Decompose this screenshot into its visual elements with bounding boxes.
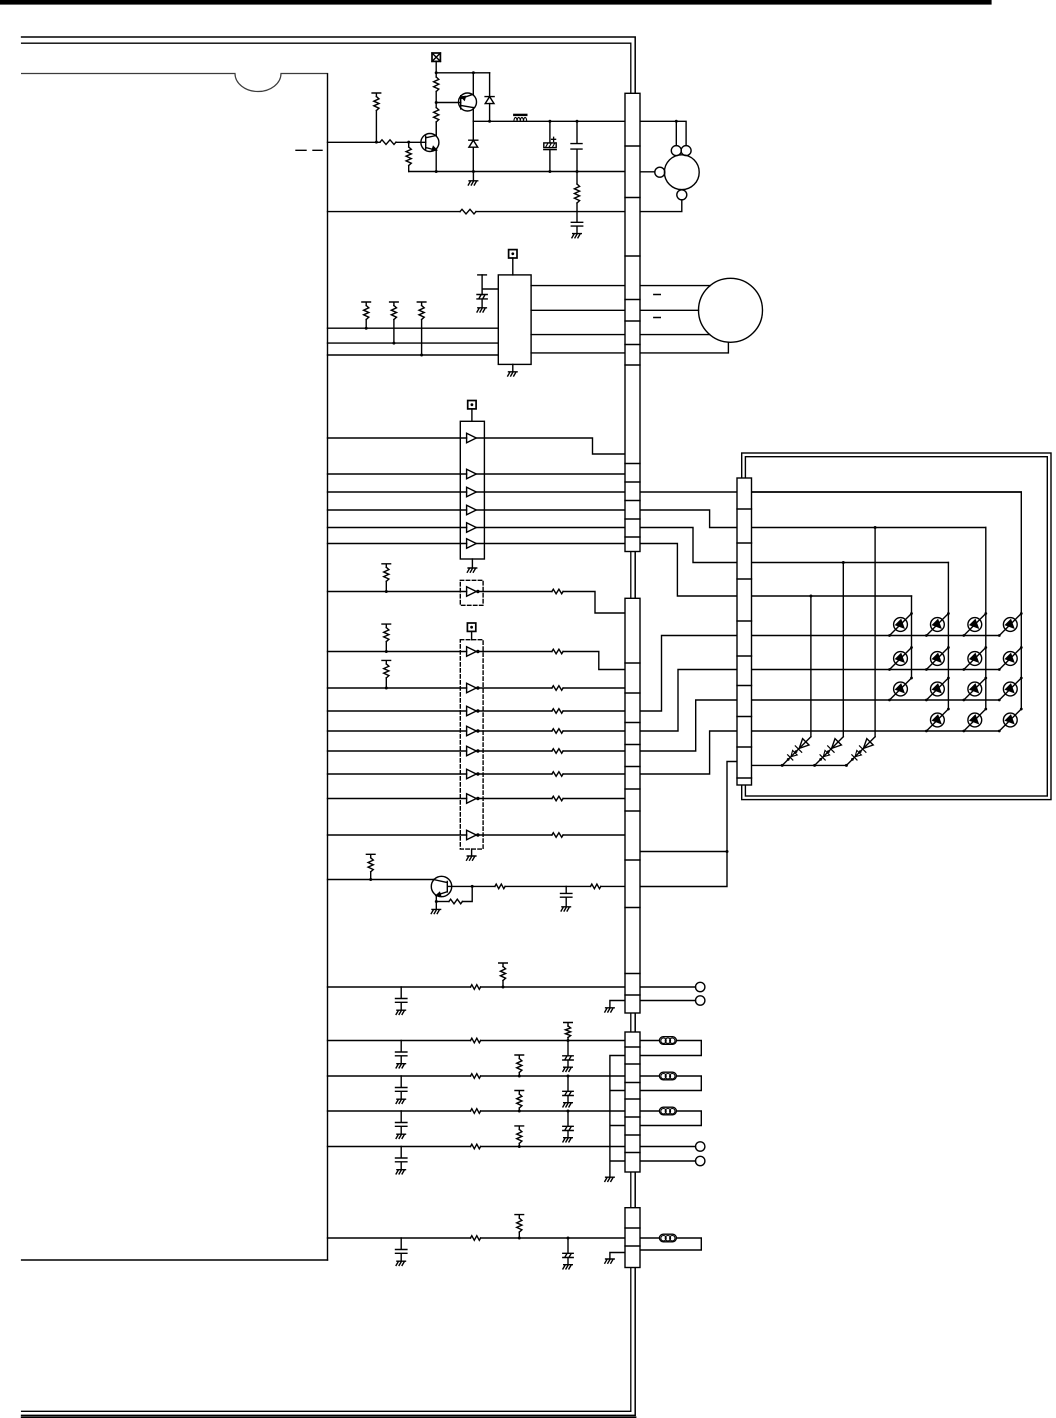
resistor R32 series	[471, 1144, 481, 1149]
wire Q1 emitter	[435, 151, 437, 172]
buffer U4-5	[467, 746, 477, 756]
wire motor mid	[640, 171, 655, 173]
wire LED common bottom	[752, 764, 847, 766]
wire U2 out 5 (LED col 2 feed)	[476, 528, 948, 563]
wire H rail 2	[328, 1075, 471, 1077]
wire Q2 emitter to rail	[472, 73, 474, 94]
wire U4 input 1	[328, 651, 467, 653]
inductor L2	[659, 1037, 676, 1045]
resistor R27 series	[471, 985, 481, 990]
resistor R23 pullup	[366, 854, 375, 858]
wire U4 input 3	[328, 710, 467, 712]
wire U4 out 2	[476, 687, 552, 689]
pin circle H2	[696, 1156, 705, 1165]
motor M2	[699, 278, 763, 342]
wire U2 out 6 (LED col 1 feed)	[476, 544, 911, 597]
node R24 junction	[471, 885, 474, 888]
LED panel inner frame	[745, 457, 1047, 796]
wire J1 stem	[435, 61, 437, 72]
wire U1 out 1	[531, 285, 710, 287]
wire U2 out 4 (LED col 3 feed)	[476, 510, 986, 528]
resistor R21 series	[552, 796, 563, 801]
node Q3 emitter junction	[435, 900, 438, 903]
wire I rail	[328, 1237, 471, 1239]
capacitor C15 electrolytic to ground	[563, 1238, 573, 1265]
resistor R35 pullup	[515, 1091, 524, 1095]
wire U4 out 1	[476, 651, 552, 653]
buffer U2-5	[467, 523, 477, 533]
wire motor return rail	[328, 211, 461, 213]
wire top supply rail	[436, 72, 489, 74]
wire LED row 1	[752, 635, 998, 637]
LED D16 row4 col2	[926, 709, 948, 731]
wire Q3 base rail	[328, 879, 434, 881]
net continuation dashes	[296, 149, 322, 151]
resistor R24 feedback	[436, 901, 449, 903]
wire U4 out 8	[476, 834, 552, 836]
buffer U4-1	[467, 647, 477, 657]
wire J3 stem	[471, 409, 473, 421]
wire LED row3 link	[640, 700, 752, 751]
resistor R3 series base	[380, 140, 396, 145]
resistor R1	[434, 77, 439, 92]
wire G rail	[328, 986, 471, 988]
diode chain 3	[846, 737, 875, 766]
connector CN2	[625, 598, 640, 1013]
wire coil loop 4	[640, 1238, 701, 1250]
node rail junctions	[435, 170, 438, 173]
wire U1 out 4	[531, 342, 728, 353]
wire Q3 emitter down	[435, 895, 437, 901]
wire U4 out 7	[476, 798, 552, 800]
node aux junction	[726, 850, 729, 853]
capacitor C14 to ground	[396, 1238, 407, 1261]
IC U2 buffer array	[460, 421, 484, 559]
buffer U4-8	[467, 830, 477, 840]
wire Q3 collector rail	[452, 885, 495, 887]
wire U4 input 7	[328, 798, 467, 800]
resistor R17 series	[552, 709, 563, 714]
LED D10 row2 col4	[999, 648, 1021, 670]
wire U2 input 5	[328, 527, 467, 529]
buffer U4-3	[467, 706, 477, 716]
wire H pin1	[640, 1146, 696, 1148]
node H3 cap junction	[567, 1110, 570, 1113]
node rail C1 junction	[548, 120, 551, 123]
capacitor C3	[571, 222, 582, 233]
wire coil loop 3	[640, 1111, 701, 1126]
LED D9 row2 col3	[964, 648, 986, 670]
board frame outer double-line	[22, 37, 636, 1415]
wire Q1 base rail	[328, 141, 381, 143]
resistor R19 series	[552, 749, 563, 754]
pin circle G2	[696, 996, 705, 1005]
pin circle H1	[696, 1142, 705, 1151]
resistor R11 pullup	[382, 564, 391, 568]
ground C5	[561, 907, 570, 911]
wire Q3 out to LED link	[640, 762, 737, 887]
node rail C2 junction	[576, 120, 579, 123]
transistor Q1 (NPN)	[421, 134, 439, 152]
wire H pin2	[640, 1160, 696, 1162]
wire aux link	[640, 851, 727, 853]
ground C3	[572, 234, 581, 238]
inductor L5	[659, 1234, 676, 1242]
wire G pin1	[640, 986, 696, 988]
wire Q1 collector	[435, 122, 437, 135]
diode chain 1	[782, 737, 811, 766]
wire U4 input 5	[328, 750, 467, 752]
wire Q2 collector down	[472, 108, 474, 122]
wire J2 stem	[512, 258, 514, 275]
main IC block bottom edge	[22, 1259, 328, 1261]
resistor R8 pullup	[362, 302, 371, 306]
resistor R14 pullup	[382, 660, 391, 664]
LED D13 row3 col3	[964, 678, 986, 700]
wire U4 input 6	[328, 773, 467, 775]
node motor feed branch	[675, 120, 678, 123]
wire Q2 base	[436, 102, 461, 104]
capacitor C4 with stub	[478, 274, 487, 276]
wire G pin2	[640, 1000, 696, 1002]
resistor R15 series	[552, 649, 563, 654]
capacitor C13 electrolytic to ground	[563, 1111, 573, 1138]
capacitor C2	[571, 121, 582, 171]
ground G connector	[610, 1001, 625, 1008]
diode D1	[489, 73, 491, 122]
IC U1 motor driver	[498, 275, 531, 365]
wire U1 out 3	[531, 334, 710, 336]
resistor R20 series	[552, 772, 563, 777]
LED D7 row2 col1	[890, 648, 912, 670]
wire LED row 4	[752, 730, 998, 732]
resistor R37 series	[471, 1236, 481, 1241]
LED D8 row2 col2	[926, 648, 948, 670]
resistor R13 pullup	[382, 624, 391, 628]
wire U2 input 3	[328, 491, 467, 493]
wire output rail	[473, 120, 625, 122]
LED D17 row4 col3	[964, 709, 986, 731]
resistor R26 series	[591, 884, 601, 889]
buffer U3 dashed box	[460, 580, 483, 605]
ground U1	[512, 364, 514, 371]
LED D11 row3 col1	[890, 678, 912, 700]
connector symbol J3 (boxed dot)	[468, 401, 476, 409]
ground I connector	[610, 1253, 625, 1259]
buffer U2-1	[467, 433, 477, 443]
connector CN5 LED panel	[737, 478, 752, 785]
resistor R36 pullup	[515, 1126, 524, 1130]
capacitor C8 to ground	[396, 1076, 407, 1099]
wire coil loop 2	[640, 1076, 701, 1091]
buffer U2-3	[467, 487, 477, 497]
ground U2	[471, 559, 473, 568]
wire LED row4 link	[640, 731, 752, 774]
ground bus symbol	[605, 1177, 614, 1181]
wire LED row 3	[752, 699, 998, 701]
wire U3 input	[328, 591, 467, 593]
capacitor C5	[561, 886, 572, 906]
wire U2 out 2	[476, 473, 625, 475]
node Q2 base junction	[435, 101, 438, 104]
resistor R30 series	[471, 1074, 481, 1079]
connector CN4	[625, 1208, 640, 1268]
resistor R4 pullup	[372, 93, 381, 97]
wire LED row1 link	[640, 636, 752, 712]
resistor R9 pullup	[390, 302, 399, 306]
wire H rail 1	[328, 1040, 471, 1042]
buffer U4-2	[467, 683, 477, 693]
capacitor C10 to ground	[396, 1147, 407, 1170]
wire U2 input 1	[328, 437, 467, 439]
main IC block right edge	[327, 74, 329, 1260]
wire U4 input 8	[328, 834, 467, 836]
wire U4 input 4	[328, 730, 467, 732]
diode D2	[472, 121, 474, 171]
buffer array U4 dashed box	[460, 640, 483, 849]
wire J4 stem	[471, 631, 473, 639]
node H2 cap junction	[567, 1075, 570, 1078]
resistor R33 pullup	[564, 1023, 573, 1027]
wire coil loop 1	[640, 1041, 701, 1056]
wire U2 out 3 (LED col 4 feed)	[476, 491, 1021, 493]
wire U4 out 6	[476, 773, 552, 775]
LED panel outer frame	[742, 453, 1051, 800]
capacitor C1 (electrolytic)	[549, 121, 551, 171]
wire U1 input rail 3	[328, 354, 499, 356]
connector symbol J4 (boxed dot)	[467, 623, 475, 631]
board frame inner double-line	[22, 43, 631, 1411]
connector symbol J1 (boxed X)	[432, 53, 440, 61]
capacitor C12 electrolytic to ground	[563, 1076, 573, 1103]
capacitor C6 to ground	[396, 987, 407, 1010]
LED D14 row3 col4	[999, 678, 1021, 700]
capacitor C7 to ground	[396, 1041, 407, 1064]
resistor R34 pullup	[515, 1055, 524, 1059]
resistor R7 series	[460, 209, 476, 214]
wire U4 input 2	[328, 687, 467, 689]
resistor R10 pullup	[417, 302, 426, 306]
wire U4 out 3	[476, 710, 552, 712]
wire U4 out 4	[476, 730, 552, 732]
inductor L4	[659, 1107, 676, 1115]
LED D12 row3 col2	[926, 678, 948, 700]
wire U1 input rail 2	[328, 342, 499, 344]
wire U4 out 5	[476, 750, 552, 752]
resistor R28 pullup	[499, 963, 508, 967]
ground C4	[477, 308, 486, 312]
buffer U4-7	[467, 794, 477, 804]
wire motor bottom return	[640, 200, 682, 212]
resistor R5 base-emitter	[407, 141, 410, 144]
wire U1 input rail 1	[328, 327, 499, 329]
node Q2 emitter rail junction	[472, 71, 475, 74]
diode chain 2	[815, 737, 844, 766]
buffer U2-4	[467, 505, 477, 515]
resistor R29 series	[471, 1038, 481, 1043]
resistor R25 series	[495, 884, 505, 889]
wire ground bus	[610, 1056, 625, 1178]
ground D2 bottom	[472, 172, 474, 181]
connector symbol J2 (boxed dot)	[509, 250, 517, 258]
polarity dashes	[654, 295, 661, 318]
buffer U4-4	[467, 726, 477, 736]
ground Q3 emitter	[435, 902, 437, 910]
resistor R16 series	[552, 686, 563, 691]
inductor L3	[659, 1072, 676, 1080]
wire U2 input 4	[328, 509, 467, 511]
buffer U3	[467, 587, 477, 597]
wire motor feed branch down	[675, 121, 677, 145]
connector CN1	[625, 93, 640, 551]
LED D5 row1 col3	[964, 614, 986, 636]
resistor R22 series	[552, 833, 563, 838]
resistor R2	[434, 108, 439, 123]
page bottom edge	[22, 1416, 636, 1418]
wire emitter ground rail	[409, 171, 625, 173]
node I cap junction	[567, 1237, 570, 1240]
wire U2 input 2	[328, 473, 467, 475]
LED D18 row4 col4	[999, 709, 1021, 731]
buffer U2-2	[467, 469, 477, 479]
LED D6 row1 col4	[999, 614, 1021, 636]
connector CN3	[625, 1032, 640, 1172]
wire U2 out 1 jog	[476, 438, 625, 454]
buffer U4-6	[467, 769, 477, 779]
capacitor C9 to ground	[396, 1111, 407, 1134]
transistor Q2 (PNP)	[459, 93, 477, 111]
pin circle G1	[696, 982, 705, 991]
wire U1 out 2	[531, 309, 698, 311]
wire H rail 3	[328, 1110, 471, 1112]
transistor Q3 (NPN)	[431, 876, 451, 896]
resistor R12 series	[552, 589, 563, 594]
wire U2 input 6	[328, 543, 467, 545]
ground U4	[471, 849, 473, 856]
resistor R38 pullup	[515, 1215, 524, 1219]
wire U3 output	[476, 591, 552, 593]
wire LED row 2	[752, 669, 998, 671]
LED D3 row1 col1	[890, 614, 912, 636]
wire motor feed top	[640, 121, 686, 145]
wire H rail 4	[328, 1146, 471, 1148]
capacitor C11 electrolytic to ground	[563, 1041, 573, 1068]
resistor R31 series	[471, 1109, 481, 1114]
motor M1	[664, 155, 699, 190]
node D1 output junction	[488, 120, 491, 123]
resistor R6 snubber	[576, 172, 578, 185]
buffer U2-6	[467, 539, 477, 549]
main IC block outline top edge with bump	[22, 74, 328, 92]
resistor R18 series	[552, 729, 563, 734]
black title bar	[0, 0, 992, 5]
inductor L1 (bead)	[514, 114, 526, 116]
LED D4 row1 col2	[926, 614, 948, 636]
wire LED row2 link	[640, 670, 752, 732]
